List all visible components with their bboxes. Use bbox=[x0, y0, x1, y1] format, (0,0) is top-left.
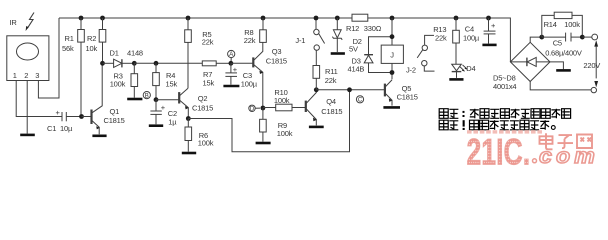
svg-text:D: D bbox=[250, 106, 255, 112]
svg-text:56k: 56k bbox=[62, 44, 74, 53]
svg-text:C5: C5 bbox=[553, 38, 562, 47]
note text line 1 (Chinese) bbox=[439, 109, 570, 119]
svg-text:+: + bbox=[491, 21, 496, 30]
node R4 top bbox=[154, 61, 159, 66]
node junction R1 top bbox=[79, 16, 84, 21]
ground (C4) bbox=[482, 44, 496, 47]
svg-text:100k: 100k bbox=[198, 138, 214, 147]
svg-text:C: C bbox=[358, 98, 363, 104]
svg-text:10k: 10k bbox=[86, 44, 98, 53]
svg-text:330Ω: 330Ω bbox=[364, 24, 382, 33]
resistor R3 bbox=[133, 63, 135, 73]
resistor R7 bbox=[202, 61, 216, 66]
node Q2 emitter / R6 bbox=[186, 116, 191, 121]
svg-text:10µ: 10µ bbox=[60, 124, 73, 133]
svg-text:100k: 100k bbox=[274, 96, 290, 105]
resistor R10 bbox=[263, 107, 276, 109]
node D bbox=[249, 105, 255, 111]
node junction R13 top bbox=[454, 16, 459, 21]
svg-text:5V: 5V bbox=[349, 45, 358, 54]
svg-text:R1: R1 bbox=[65, 34, 74, 43]
svg-text:Q4: Q4 bbox=[326, 97, 336, 106]
svg-text:22k: 22k bbox=[244, 36, 256, 45]
node C junction bbox=[347, 87, 352, 92]
svg-text:R2: R2 bbox=[87, 34, 96, 43]
svg-text:100k: 100k bbox=[110, 80, 126, 89]
zener diode D2 bbox=[335, 16, 340, 21]
svg-text:R14: R14 bbox=[544, 20, 557, 29]
ground (R9) bbox=[256, 142, 271, 145]
resistor R12 bbox=[352, 14, 368, 21]
svg-text:Q1: Q1 bbox=[110, 107, 120, 116]
capacitor C3 bbox=[230, 63, 232, 72]
svg-text:C1: C1 bbox=[47, 124, 56, 133]
svg-text:+: + bbox=[161, 103, 166, 112]
IR receiver module box bbox=[7, 36, 49, 81]
svg-text:A: A bbox=[229, 52, 233, 58]
ground (Q4 emitter) bbox=[309, 126, 324, 129]
resistor R6 bbox=[187, 119, 189, 128]
capacitor C2 bbox=[155, 100, 157, 111]
relay coil J bbox=[390, 16, 395, 21]
ground (bridge right vertex) bbox=[550, 62, 563, 69]
ground (C2) bbox=[149, 124, 163, 127]
svg-text:D4: D4 bbox=[466, 64, 475, 73]
wire pin2 down to ground bbox=[26, 81, 28, 134]
resistor R1 bbox=[80, 18, 82, 30]
resistor R9 bbox=[262, 108, 264, 119]
wire bridge top vertex to R14/C5 node bbox=[530, 37, 542, 42]
wire bridge bottom to mains terminal bottom bbox=[530, 82, 591, 90]
svg-text:1: 1 bbox=[13, 71, 17, 80]
svg-text:Q3: Q3 bbox=[272, 47, 282, 56]
resistor R4 bbox=[155, 63, 157, 72]
svg-text:21IC.: 21IC. bbox=[467, 131, 531, 172]
svg-text:IR: IR bbox=[10, 18, 18, 27]
svg-text:C3: C3 bbox=[243, 71, 252, 80]
svg-text:D1: D1 bbox=[110, 48, 119, 57]
svg-text:220V: 220V bbox=[583, 61, 600, 70]
terminal (mains bottom) bbox=[591, 87, 596, 92]
resistor R11 bbox=[315, 78, 317, 90]
svg-text:2: 2 bbox=[24, 71, 28, 80]
ground (Q5 emitter) bbox=[383, 106, 400, 109]
svg-text:J-1: J-1 bbox=[295, 36, 305, 45]
wire D1 cathode to R4 to R7 bbox=[134, 62, 202, 64]
node junction R8 top bbox=[261, 16, 266, 21]
transistor Q4 bbox=[305, 101, 307, 112]
node D1 cathode / R3 bbox=[132, 61, 137, 66]
svg-text:3: 3 bbox=[35, 71, 39, 80]
resistor R14 bbox=[542, 15, 554, 37]
wire Q4 collector to Q5 base bbox=[316, 89, 384, 91]
resistor R2 bbox=[102, 18, 104, 30]
watermark dianziwang characters bbox=[540, 133, 593, 149]
switch J-1 bbox=[314, 29, 319, 34]
svg-text:R11: R11 bbox=[325, 67, 338, 76]
diode D1 bbox=[103, 62, 114, 64]
svg-text:C1815: C1815 bbox=[397, 93, 418, 102]
node junction R2 top bbox=[100, 16, 105, 21]
svg-text:1µ: 1µ bbox=[168, 118, 177, 127]
svg-text:C1815: C1815 bbox=[192, 104, 213, 113]
resistor R8 bbox=[262, 18, 264, 30]
diode D3 bbox=[369, 37, 393, 55]
wire C1 to Q1 base node bbox=[66, 116, 81, 118]
transistor Q3 bbox=[231, 62, 253, 64]
watermark .com script bbox=[533, 144, 600, 168]
wire top rail right section bbox=[368, 18, 510, 62]
svg-text:J-2: J-2 bbox=[406, 66, 416, 75]
svg-text:C1815: C1815 bbox=[266, 56, 287, 65]
svg-text:Q2: Q2 bbox=[198, 94, 208, 103]
svg-text:C4: C4 bbox=[465, 25, 474, 34]
wire pin3 to left rail up to top rail bbox=[38, 18, 59, 98]
ground (pin 2) bbox=[20, 134, 35, 137]
svg-text:+: + bbox=[56, 108, 61, 117]
svg-text:414B: 414B bbox=[348, 65, 365, 74]
svg-text:15k: 15k bbox=[166, 80, 178, 89]
ground (R3) bbox=[127, 98, 142, 101]
svg-text:B: B bbox=[145, 93, 149, 99]
wire pin1 down and right to C1 bbox=[16, 81, 62, 117]
node junction R5 top bbox=[186, 16, 191, 21]
ground (D2) bbox=[331, 52, 345, 55]
node B bbox=[143, 92, 150, 99]
svg-text:com: com bbox=[539, 144, 599, 168]
svg-text:4001x4: 4001x4 bbox=[493, 82, 516, 91]
ground (C3) bbox=[223, 85, 239, 88]
wire to mains terminal top bbox=[582, 36, 592, 38]
node Q4 collector / R11 bbox=[314, 87, 319, 92]
svg-text:100µ: 100µ bbox=[241, 80, 258, 89]
svg-text:0.68µ/400V: 0.68µ/400V bbox=[545, 49, 582, 58]
node R2/D1/Q1 collector bbox=[100, 61, 105, 66]
watermark 21IC logotype bbox=[467, 131, 531, 172]
bridge rectifier D5-D8 bbox=[510, 42, 550, 81]
svg-text:22k: 22k bbox=[435, 34, 447, 43]
svg-text:100k: 100k bbox=[277, 129, 293, 138]
resistor R13 bbox=[455, 18, 457, 30]
capacitor C5 bbox=[542, 36, 566, 38]
wire top rail left section bbox=[59, 17, 352, 19]
svg-text:C1815: C1815 bbox=[321, 107, 342, 116]
svg-text:22k: 22k bbox=[325, 76, 337, 85]
ground (D4) bbox=[449, 78, 463, 81]
note text line 2 (Chinese) bbox=[439, 120, 555, 130]
svg-text:C1815: C1815 bbox=[104, 116, 125, 125]
IR light arrow bbox=[27, 13, 34, 29]
svg-text:R12: R12 bbox=[346, 24, 359, 33]
ground (R6) bbox=[182, 152, 196, 155]
node C1/R1/Q1 base bbox=[79, 114, 84, 119]
watermark tagline row bbox=[467, 130, 542, 133]
wire feedback Q2 emitter to node C line bbox=[188, 90, 349, 152]
capacitor C1 bbox=[61, 112, 63, 121]
watermark 21IC.com bbox=[467, 130, 600, 172]
svg-text:J: J bbox=[390, 51, 394, 60]
svg-text:15k: 15k bbox=[203, 79, 215, 88]
transistor Q1 bbox=[82, 116, 91, 118]
transistor Q2 bbox=[156, 99, 179, 101]
transistor Q5 bbox=[384, 84, 386, 97]
LED D4 bbox=[452, 64, 462, 71]
node A bbox=[228, 50, 235, 57]
ground (Q1 emitter) bbox=[92, 135, 106, 138]
svg-text:100µ: 100µ bbox=[463, 34, 480, 43]
capacitor C4 bbox=[486, 16, 491, 21]
terminal (mains top) bbox=[592, 34, 598, 40]
svg-text:22k: 22k bbox=[202, 37, 214, 46]
switch J-2 (relay contact) bbox=[425, 35, 434, 45]
node C bbox=[356, 96, 363, 103]
220V mains arrow bbox=[594, 40, 598, 46]
resistor R5 bbox=[187, 18, 189, 30]
svg-text:4148: 4148 bbox=[127, 48, 143, 57]
svg-text:100k: 100k bbox=[564, 20, 580, 29]
